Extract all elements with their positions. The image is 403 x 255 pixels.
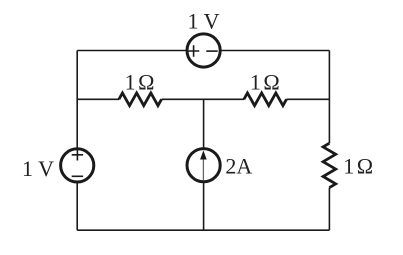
I1 arrow head <box>200 150 207 159</box>
svg-text:1 Ω: 1 Ω <box>250 70 280 95</box>
svg-text:2A: 2A <box>225 154 252 179</box>
resistor R2 1ohm zigzag <box>244 93 287 106</box>
wire middle horizontal segment 1 <box>77 98 119 100</box>
V1 minus sign <box>72 175 83 177</box>
wire left vertical <box>76 51 78 231</box>
wire middle horizontal segment 2 <box>162 98 245 100</box>
wire middle branch vertical <box>203 99 205 230</box>
svg-text:1 Ω: 1 Ω <box>125 70 155 95</box>
svg-text:1 Ω: 1 Ω <box>343 153 373 178</box>
resistor R1 1ohm zigzag <box>119 93 162 106</box>
voltage source V1 circle (left) <box>61 149 94 182</box>
wire bottom <box>77 229 329 231</box>
wire middle horizontal segment 3 <box>287 98 330 100</box>
I1 arrow shaft <box>202 159 204 181</box>
V1 plus sign <box>72 149 83 160</box>
svg-text:1 V: 1 V <box>22 156 54 181</box>
wire top: node A to node B <box>77 50 329 52</box>
wire right vertical upper stub <box>328 51 330 144</box>
resistor R3 1ohm vertical zigzag <box>323 143 336 187</box>
svg-text:1 V: 1 V <box>188 8 220 33</box>
current source I1 circle <box>187 149 220 182</box>
V2 minus sign <box>206 50 217 52</box>
wire right vertical lower stub <box>328 188 330 231</box>
V2 plus sign <box>188 45 199 56</box>
voltage source V2 circle (top) <box>187 34 220 67</box>
